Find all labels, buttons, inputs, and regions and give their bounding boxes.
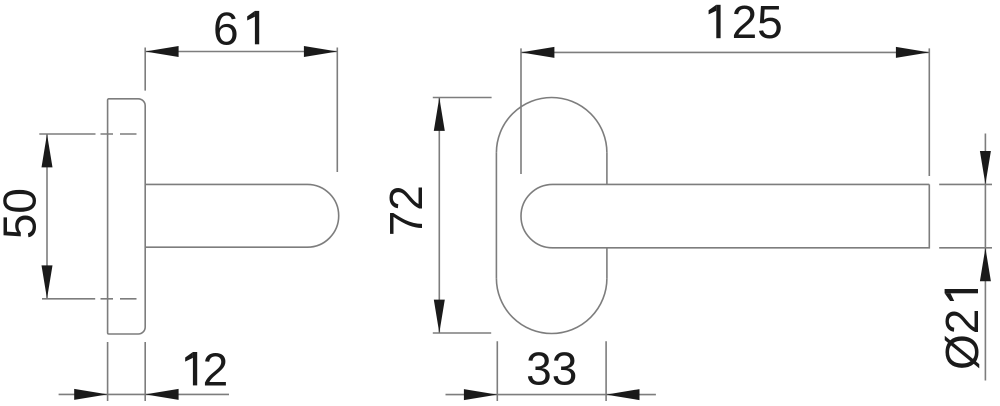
svg-text:72: 72 bbox=[380, 185, 432, 236]
svg-text:50: 50 bbox=[0, 188, 45, 239]
svg-text:33: 33 bbox=[526, 342, 577, 394]
